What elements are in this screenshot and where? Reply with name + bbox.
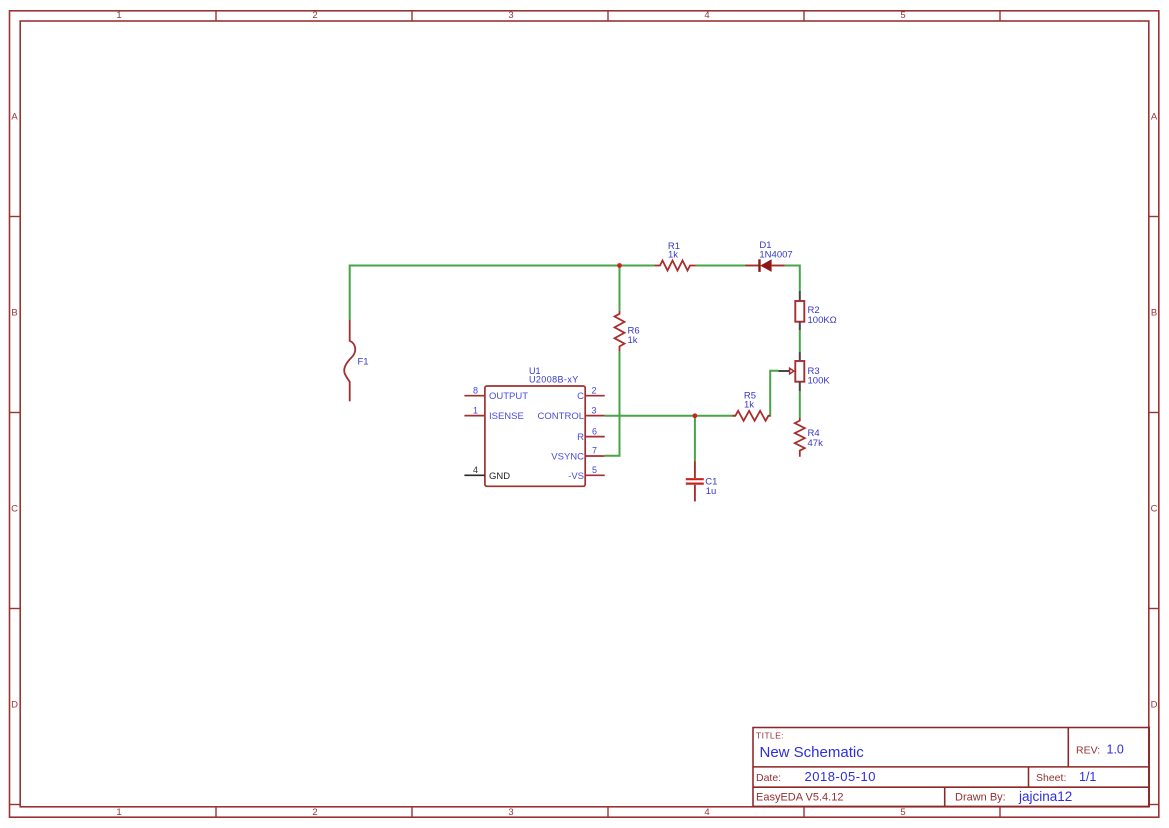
potentiometer R3 (box with wiper arrow) [778, 352, 804, 391]
resistor R4 [795, 418, 805, 457]
diode D1 [745, 259, 785, 272]
F1 label [358, 357, 369, 368]
wire R3 to R4 [799, 391, 801, 418]
U1 pin 1 [464, 405, 523, 422]
svg-text:1k: 1k [744, 400, 754, 411]
svg-text:1k: 1k [668, 250, 678, 261]
wire junction2 to C1 [694, 416, 696, 462]
capacitor C1 [686, 461, 704, 501]
svg-text:C: C [577, 391, 584, 402]
svg-text:F1: F1 [358, 357, 369, 368]
svg-text:5: 5 [900, 807, 905, 818]
svg-text:Drawn By:: Drawn By: [955, 792, 1006, 804]
resistor R5 [733, 411, 771, 421]
svg-text:4: 4 [704, 807, 709, 818]
wire R5 to R3 wiper [768, 371, 778, 416]
svg-text:-VS: -VS [568, 471, 584, 482]
svg-text:6: 6 [592, 426, 597, 436]
svg-text:D: D [11, 699, 18, 710]
svg-text:C: C [1151, 503, 1158, 514]
svg-text:5: 5 [592, 465, 597, 475]
svg-text:7: 7 [592, 446, 597, 456]
svg-text:C: C [11, 503, 18, 514]
U1 pin 8 [464, 385, 528, 402]
svg-text:1u: 1u [706, 486, 717, 497]
U1 pin 3 [538, 405, 605, 422]
svg-text:2: 2 [312, 807, 317, 818]
svg-text:3: 3 [591, 405, 596, 415]
svg-text:1: 1 [116, 807, 121, 818]
svg-text:4: 4 [704, 10, 709, 21]
op-amp U1 (IC U2008B-xY) [485, 386, 585, 486]
svg-text:B: B [1151, 307, 1157, 318]
svg-text:1: 1 [116, 10, 121, 21]
svg-text:TITLE:: TITLE: [756, 730, 784, 740]
title block values [760, 743, 1124, 805]
R3 labels [808, 366, 831, 387]
svg-text:New Schematic: New Schematic [760, 744, 865, 761]
svg-text:1k: 1k [628, 335, 638, 346]
svg-text:1: 1 [473, 405, 478, 415]
wire pin3 CONTROL to R5 [605, 415, 736, 417]
node junction 1 (top wire / R6) [617, 263, 622, 268]
node junction 2 (CONTROL / C1 / R5) [693, 413, 698, 418]
wire R1 to D1 [696, 265, 745, 267]
svg-text:R: R [577, 432, 584, 443]
svg-text:3: 3 [508, 10, 513, 21]
svg-text:1/1: 1/1 [1079, 770, 1096, 784]
svg-text:D: D [1151, 699, 1158, 710]
R1 labels [668, 241, 680, 261]
C1 labels [705, 476, 717, 497]
svg-text:2018-05-10: 2018-05-10 [805, 769, 877, 784]
wire F1 to junction (top-left L) [350, 266, 620, 321]
svg-text:Date:: Date: [756, 772, 781, 784]
title block [753, 728, 1149, 807]
svg-text:1.0: 1.0 [1107, 743, 1124, 757]
resistor R6 [615, 311, 625, 351]
svg-text:A: A [1151, 111, 1158, 122]
svg-text:CONTROL: CONTROL [538, 411, 584, 422]
svg-text:2: 2 [591, 385, 596, 395]
svg-text:B: B [11, 307, 17, 318]
U1 pin 6 [577, 426, 605, 443]
svg-text:REV:: REV: [1076, 745, 1100, 757]
resistor R1 [655, 261, 696, 271]
resistor R2 (box style) [795, 291, 804, 330]
svg-text:jajcina12: jajcina12 [1018, 789, 1072, 804]
svg-text:EasyEDA V5.4.12: EasyEDA V5.4.12 [756, 792, 843, 804]
title block labels [756, 730, 1100, 803]
wire junction to R6 [619, 266, 621, 312]
U1 pin 2 [577, 385, 605, 402]
wire D1 to R2 (corner) [785, 266, 800, 292]
fuse F1 [344, 320, 355, 401]
svg-text:4: 4 [473, 465, 478, 475]
svg-text:3: 3 [508, 807, 513, 818]
R5 labels [744, 391, 756, 411]
D1 labels [759, 240, 792, 260]
R6 labels [628, 326, 640, 347]
svg-text:1N4007: 1N4007 [759, 249, 792, 260]
svg-text:GND: GND [489, 471, 510, 482]
wire R2 to R3 [799, 330, 801, 352]
R4 labels [808, 428, 824, 449]
U1 pin 5 [568, 465, 605, 482]
svg-text:U2008B-xY: U2008B-xY [529, 375, 579, 385]
svg-text:2: 2 [312, 10, 317, 21]
R2 labels [808, 305, 837, 326]
svg-text:OUTPUT: OUTPUT [489, 391, 528, 402]
svg-text:A: A [11, 111, 18, 122]
svg-text:ISENSE: ISENSE [489, 411, 524, 422]
svg-text:VSYNC: VSYNC [551, 452, 584, 463]
U1 pin 4 (GND) [464, 465, 510, 482]
svg-text:47k: 47k [808, 438, 824, 449]
U1 ref labels [529, 366, 579, 385]
wire R6 to pin7 VSYNC [605, 351, 620, 455]
svg-text:5: 5 [900, 10, 905, 21]
svg-text:100K: 100K [808, 376, 831, 387]
U1 pin 7 [551, 446, 604, 463]
svg-text:8: 8 [473, 385, 478, 395]
svg-text:Sheet:: Sheet: [1036, 772, 1066, 784]
wire junction to R1 [620, 265, 655, 267]
svg-text:100KΩ: 100KΩ [808, 315, 837, 326]
